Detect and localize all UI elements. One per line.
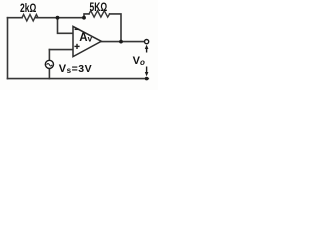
node junction at feedback stub: [82, 16, 86, 20]
output terminal circle: [145, 40, 149, 44]
op-amp minus sign: [75, 28, 80, 30]
wire op-amp + input: [49, 49, 73, 51]
svg-text:2kΩ: 2kΩ: [20, 1, 37, 15]
svg-text:Av: Av: [79, 32, 92, 44]
Vo down arrow: [145, 67, 149, 77]
source VS circle: [45, 60, 53, 68]
svg-text:5KΩ: 5KΩ: [90, 0, 108, 14]
node junction bottom-right: [145, 77, 149, 81]
op-amp U1 triangle: [73, 26, 101, 56]
wire source top lead: [48, 50, 50, 61]
node junction feedback/output: [119, 40, 123, 44]
wire top-left lead: [8, 17, 23, 19]
resistor R1 2kΩ zigzag: [22, 15, 38, 21]
wire feedback stub up: [84, 14, 89, 18]
wire bottom rail: [8, 78, 149, 80]
wire feedback right + down: [110, 14, 121, 42]
svg-text:Vo: Vo: [133, 55, 145, 67]
Vo up arrow: [145, 45, 149, 53]
svg-text:Vs=3V: Vs=3V: [59, 63, 92, 75]
resistor R2 5KΩ zigzag: [89, 11, 110, 17]
node junction at inverting branch: [56, 16, 60, 20]
wire inverting branch: [58, 18, 74, 34]
wire left rail: [7, 18, 9, 79]
wire top mid: [36, 17, 84, 19]
wire output: [101, 41, 144, 43]
wire source bottom lead: [48, 69, 50, 79]
op-amp plus sign: [74, 44, 79, 49]
source VS tilde: [47, 64, 53, 67]
